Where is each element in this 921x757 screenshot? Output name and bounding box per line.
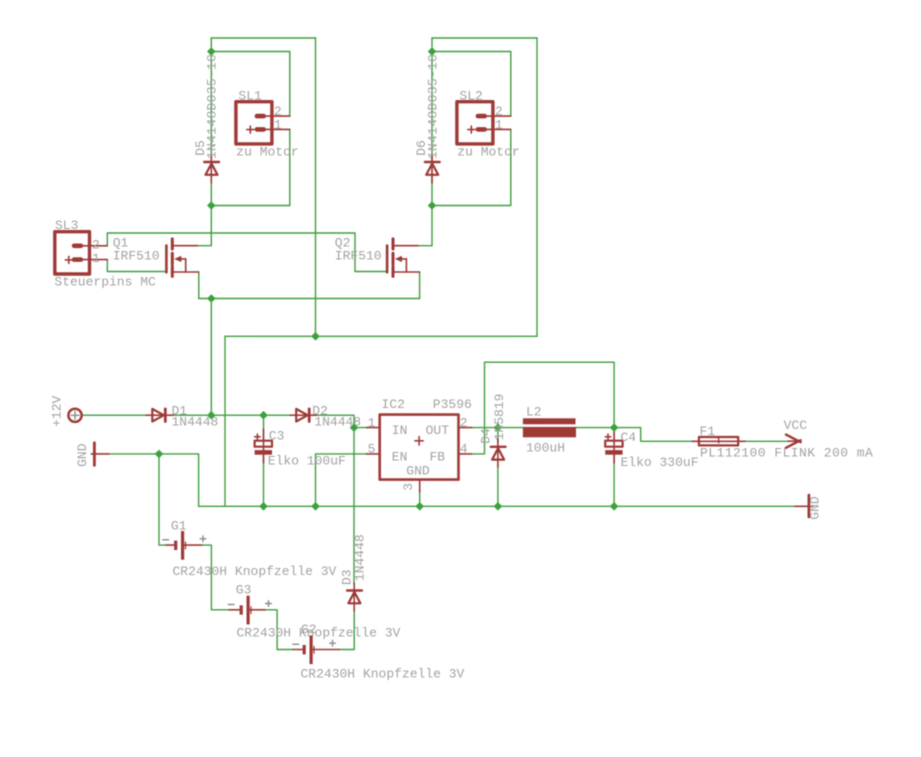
wire G1 plus to G3: [202, 545, 229, 610]
node L2 out / C4 junction: [610, 423, 619, 432]
battery G2: [292, 635, 339, 664]
wire G2 plus to D3: [339, 610, 354, 650]
node bus junction at C3: [259, 502, 268, 511]
svg-text:GND: GND: [808, 496, 823, 520]
node sources junction: [207, 294, 216, 303]
wire SL1 loop top: [211, 37, 315, 39]
wire D4 bottom leg: [497, 465, 499, 506]
svg-text:C4: C4: [621, 430, 637, 445]
svg-text:1: 1: [495, 117, 503, 132]
wire C4 bottom leg: [613, 453, 615, 506]
svg-text:zu Motor: zu Motor: [457, 145, 519, 160]
svg-text:1N4448: 1N4448: [172, 414, 219, 429]
diode D2: [290, 409, 317, 422]
node bus junction at D4: [494, 502, 503, 511]
node OUT / D4 junction: [494, 423, 503, 432]
svg-text:F1: F1: [700, 424, 716, 439]
op-amp U1 IC2 P3596 box: [367, 415, 472, 492]
connector SL3: [55, 232, 108, 274]
svg-text:CR2430H Knopfzelle 3V: CR2430H Knopfzelle 3V: [301, 667, 465, 682]
wire GND junction to G1: [159, 454, 166, 545]
svg-text:+12V: +12V: [49, 396, 64, 427]
svg-text:1N4448: 1N4448: [314, 414, 361, 429]
svg-text:4: 4: [460, 442, 468, 457]
wire SL1 pin1 branch: [211, 129, 289, 205]
node SL1 pin2 junction: [207, 47, 216, 56]
wire D2 to IC2 pin1: [317, 415, 367, 427]
diode D5: [204, 155, 219, 183]
svg-text:GND: GND: [406, 463, 430, 478]
diode D4: [491, 439, 506, 467]
connector SL2: [457, 102, 511, 144]
wire loop-to-bus vertical: [224, 336, 226, 506]
wire C3 top leg: [263, 415, 265, 441]
capacitor C3: [255, 429, 272, 463]
wire GND symbol to junction row: [109, 454, 199, 506]
svg-text:OUT: OUT: [426, 423, 450, 438]
svg-text:1: 1: [92, 251, 100, 266]
svg-text:P3596: P3596: [433, 397, 472, 412]
svg-text:G3: G3: [236, 583, 252, 598]
svg-text:L2: L2: [526, 405, 542, 420]
node bus junction at C4: [610, 502, 619, 511]
node IC2 pin1 / D3 junction: [350, 423, 359, 432]
svg-text:IRF510: IRF510: [113, 249, 160, 264]
svg-text:G2: G2: [301, 622, 317, 637]
transistor Q2: [387, 239, 420, 277]
svg-text:IN: IN: [392, 423, 408, 438]
node SL1 pin1 junction: [207, 201, 216, 210]
wire IC2 GND pin to bus: [419, 492, 421, 506]
battery G3: [228, 596, 272, 625]
svg-text:1: 1: [368, 415, 376, 430]
wire sources junction to rail: [210, 299, 212, 416]
wire C4 top leg: [613, 428, 615, 441]
diode D6: [425, 155, 440, 183]
wire D5 / Q1 drain column: [210, 38, 212, 246]
fuse F1: [692, 437, 745, 445]
node rail junction at sources column: [207, 411, 216, 420]
wire Q1 source down leg: [198, 272, 200, 299]
wire SL2 loop right vertical: [536, 38, 538, 336]
node rail junction at C3: [259, 411, 268, 420]
svg-text:1N5819: 1N5819: [492, 394, 507, 441]
wire OUT to L2: [472, 427, 523, 429]
svg-text:VCC: VCC: [784, 418, 808, 433]
wire G3 plus to G2: [265, 610, 293, 650]
wire Q2 drain stub: [418, 245, 432, 247]
wire D6 / Q2 drain column: [431, 38, 433, 246]
wire SL3 pin2 to Q2 gate: [107, 233, 387, 272]
power +12V symbol: [68, 409, 81, 422]
wire SL2 pin1 branch: [432, 129, 511, 205]
svg-text:3: 3: [401, 483, 416, 491]
battery G1: [162, 531, 206, 560]
svg-text:100uH: 100uH: [526, 441, 565, 456]
svg-text:Steuerpins MC: Steuerpins MC: [54, 275, 156, 290]
diode D1: [146, 409, 173, 422]
wire IC2 pin1 node vertical to D3: [353, 428, 355, 584]
svg-text:5: 5: [368, 442, 376, 457]
svg-text:IRF510: IRF510: [335, 249, 382, 264]
ground left GND: [91, 443, 109, 466]
svg-text:FB: FB: [430, 449, 446, 464]
wire F1 to VCC: [745, 440, 788, 442]
node SL2 pin2 junction: [428, 47, 437, 56]
node GND / G1 junction: [155, 450, 164, 459]
wire +12V to D1: [82, 414, 146, 416]
svg-text:C3: C3: [269, 429, 285, 444]
svg-text:EN: EN: [392, 449, 408, 464]
svg-text:Elko 100uF: Elko 100uF: [268, 453, 346, 468]
svg-text:SL3: SL3: [55, 218, 78, 233]
wire C3 bottom leg: [263, 453, 265, 506]
node SL2 pin1 junction: [428, 201, 437, 210]
svg-text:2: 2: [460, 415, 468, 430]
wire SL1 loop right vertical: [315, 38, 317, 336]
transistor Q1: [166, 239, 198, 277]
svg-text:CR2430H Knopfzelle 3V: CR2430H Knopfzelle 3V: [173, 564, 337, 579]
wire C4 node to F1: [614, 428, 692, 442]
svg-text:zu Motor: zu Motor: [236, 145, 298, 160]
wire GND bus: [199, 505, 795, 507]
wire SL1 pin2 branch: [211, 52, 289, 116]
node bus junction at IC2 GND: [415, 502, 424, 511]
wire FB loop: [472, 362, 614, 454]
wire SL3 pin1 to Q1 gate: [107, 260, 166, 272]
power VCC arrow: [786, 435, 801, 448]
svg-text:1N4448: 1N4448: [353, 534, 368, 581]
svg-text:1N4148DO35-10: 1N4148DO35-10: [425, 54, 440, 159]
ground right GND: [795, 495, 813, 517]
wire Q2 source down leg: [419, 272, 421, 299]
svg-text:G1: G1: [171, 519, 187, 534]
node bus junction at EN column: [311, 502, 320, 511]
capacitor C4: [605, 429, 622, 463]
svg-text:SL1: SL1: [238, 89, 262, 104]
node motor-loop row junction: [311, 332, 320, 341]
diode D3: [347, 583, 362, 611]
wire SL2 pin2 branch: [432, 52, 511, 116]
svg-text:1N4148DO35-10: 1N4148DO35-10: [205, 54, 220, 159]
wire EN to GND bus: [316, 454, 367, 506]
svg-text:Elko 330uF: Elko 330uF: [621, 455, 699, 470]
wire Q1 drain stub: [198, 245, 212, 247]
wire D4 top leg: [497, 428, 499, 442]
svg-text:SL2: SL2: [459, 89, 482, 104]
inductor L2: [523, 418, 576, 437]
connector SL1: [236, 102, 290, 144]
svg-text:GND: GND: [75, 443, 90, 467]
wire L2 to C4 node: [576, 427, 614, 429]
svg-text:PL112100 FLINK 200 mA: PL112100 FLINK 200 mA: [700, 446, 873, 461]
svg-text:IC2: IC2: [382, 397, 405, 412]
wire motor-loop bottom row: [225, 335, 537, 337]
svg-text:1: 1: [274, 117, 282, 132]
wire D1 to D2 rail: [173, 414, 290, 416]
svg-text:CR2430H Knopfzelle 3V: CR2430H Knopfzelle 3V: [237, 625, 401, 640]
wire SL2 loop top: [432, 37, 537, 39]
wire sources tie row: [199, 298, 420, 300]
